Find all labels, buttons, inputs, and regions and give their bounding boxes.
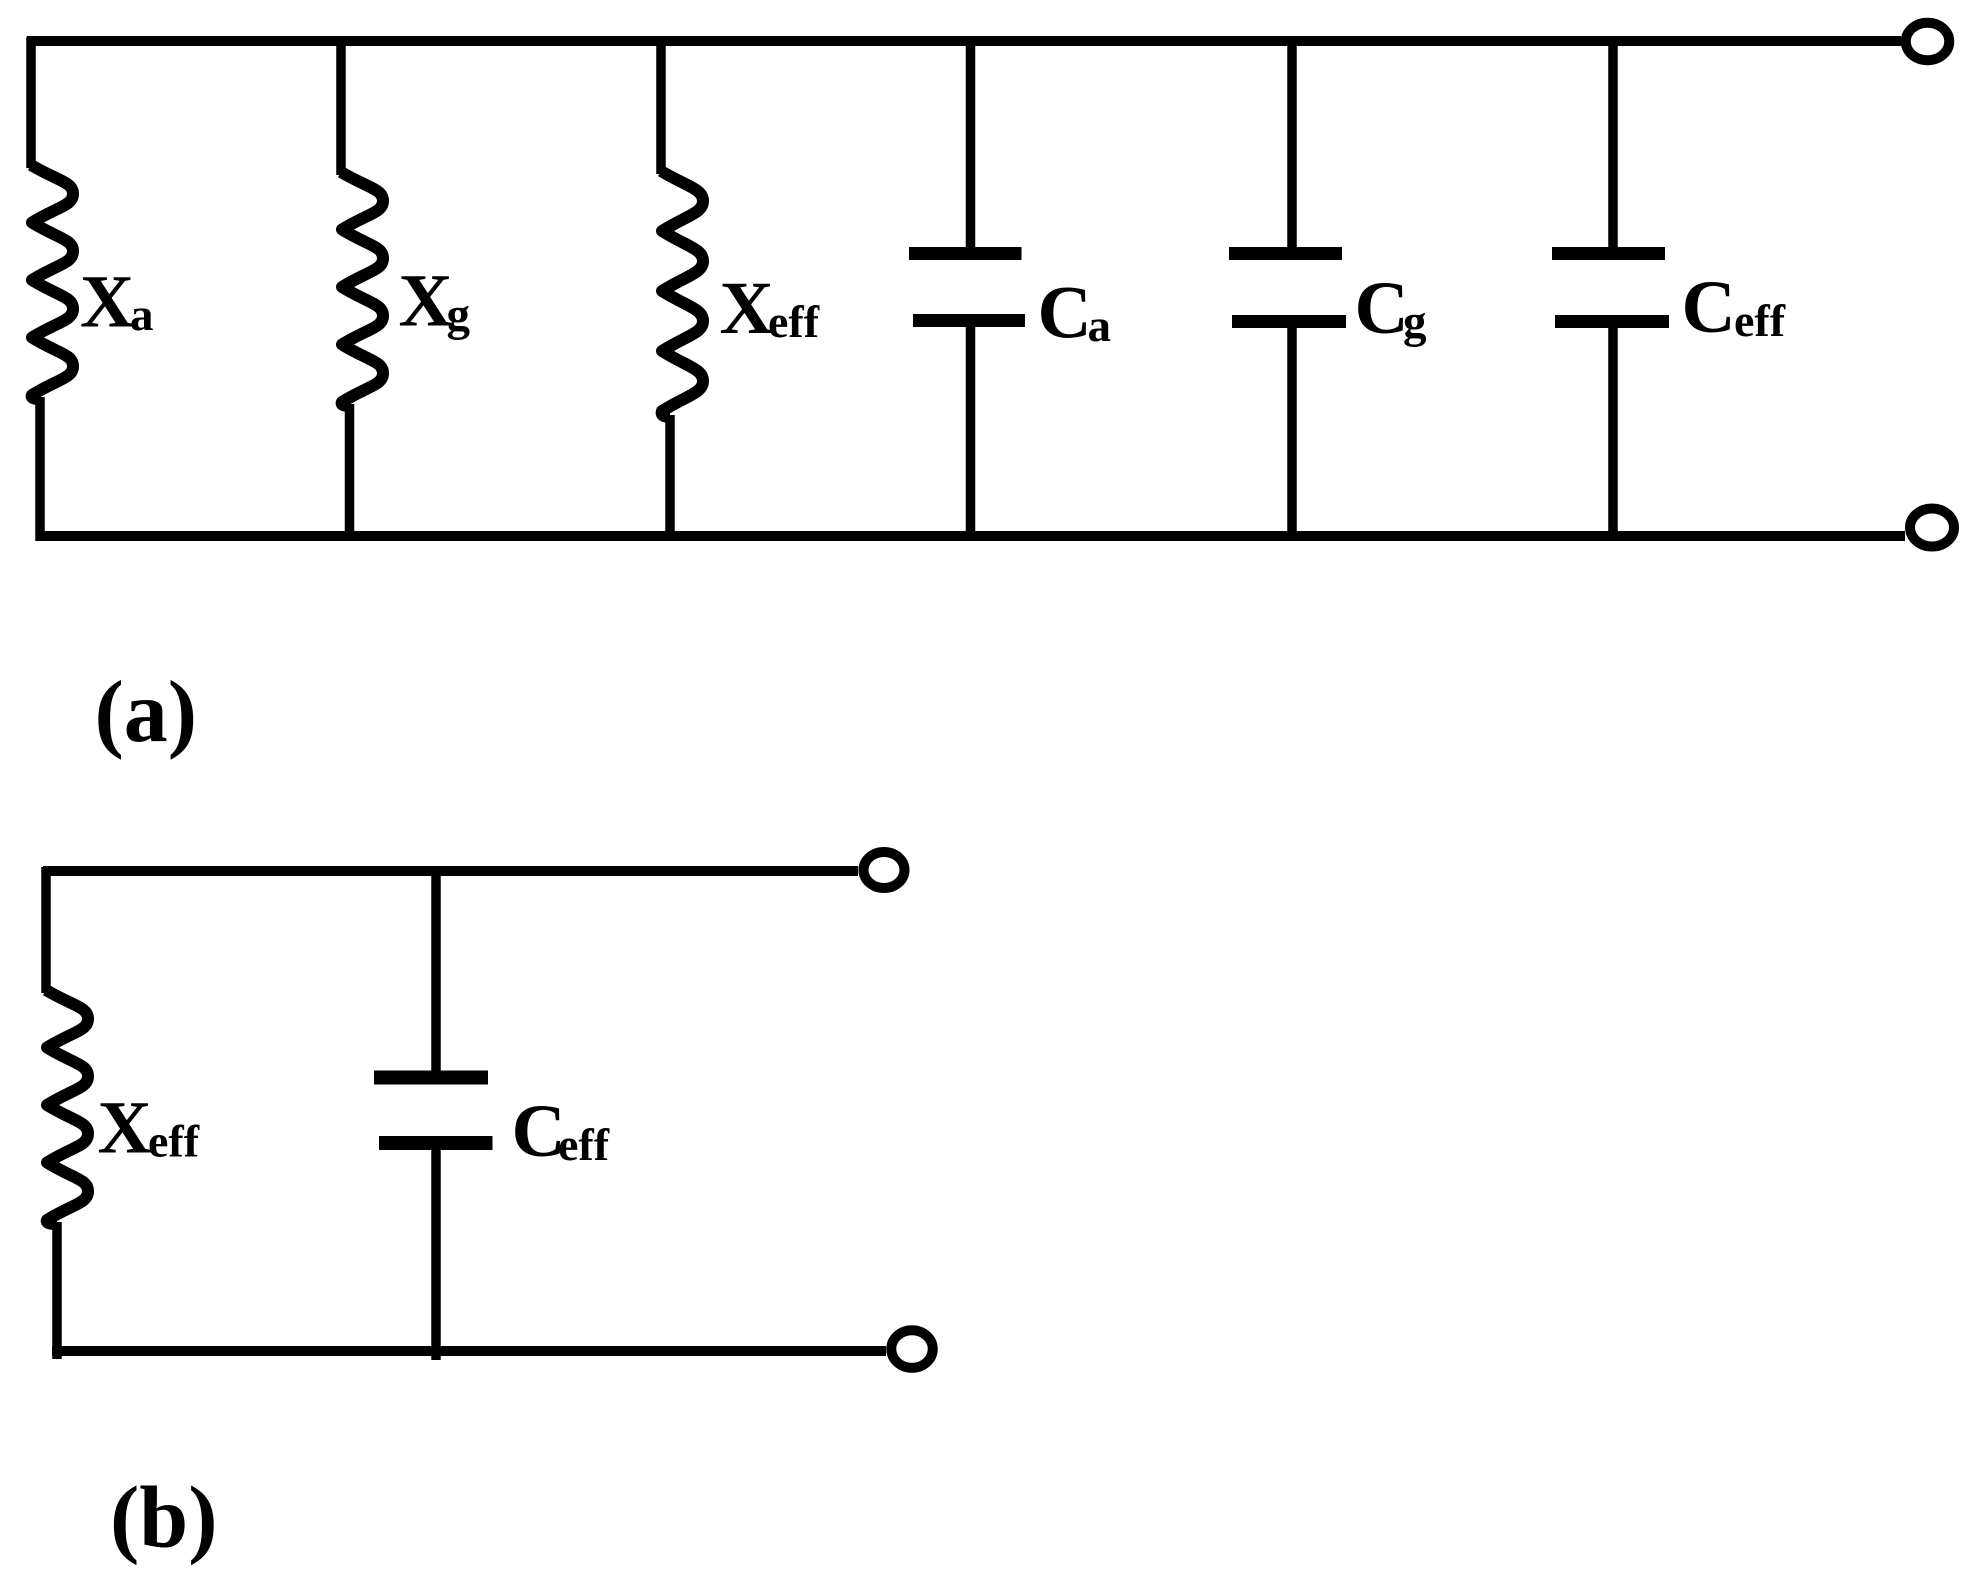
svg-text:g: g	[1403, 296, 1427, 348]
svg-text:a: a	[1088, 300, 1112, 352]
svg-text:(b): (b)	[110, 1470, 218, 1567]
svg-text:X: X	[720, 267, 774, 350]
svg-text:eff: eff	[558, 1119, 610, 1170]
svg-text:eff: eff	[768, 296, 820, 347]
svg-text:eff: eff	[148, 1116, 200, 1167]
svg-text:C: C	[1682, 266, 1736, 349]
svg-text:X: X	[80, 261, 134, 344]
svg-text:C: C	[1038, 272, 1092, 355]
svg-text:a: a	[130, 289, 154, 341]
svg-text:C: C	[1355, 267, 1409, 350]
svg-text:(a): (a)	[95, 664, 198, 761]
svg-text:X: X	[399, 260, 453, 343]
svg-text:g: g	[447, 289, 471, 341]
svg-text:X: X	[98, 1087, 152, 1170]
svg-text:eff: eff	[1734, 295, 1786, 346]
